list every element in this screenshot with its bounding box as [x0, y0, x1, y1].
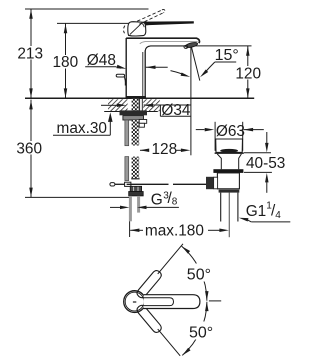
- svg-text:8: 8: [172, 197, 178, 208]
- svg-text:G1: G1: [246, 203, 267, 220]
- dimension 120: [235, 46, 261, 98]
- dimension 128: [140, 141, 191, 158]
- svg-text:180: 180: [52, 54, 78, 71]
- svg-text:40-53: 40-53: [246, 155, 285, 172]
- threaded shank (lower): [132, 157, 140, 179]
- drain seal ring: [213, 169, 243, 173]
- top view: handle: [144, 295, 200, 309]
- dimension 40-53: [244, 132, 286, 193]
- extension line supply level: [25, 196, 130, 198]
- svg-text:50°: 50°: [187, 266, 211, 283]
- svg-text:4: 4: [275, 210, 281, 221]
- threaded shank below nut (upper): [132, 120, 140, 146]
- horizontal reference line right of handle: [209, 300, 221, 302]
- svg-text:120: 120: [235, 66, 261, 83]
- shank tube wall: [140, 99, 143, 111]
- dashed raised lever: [137, 9, 165, 24]
- 15 degree left arc arrow: [171, 71, 191, 79]
- extension line top (raised lever height): [25, 8, 149, 10]
- svg-text:Ø34: Ø34: [161, 102, 191, 119]
- svg-text:213: 213: [17, 45, 43, 62]
- label G3/8 with leader: [110, 190, 179, 209]
- mounting washer: [120, 110, 148, 115]
- lever handle bar: [143, 21, 194, 26]
- upper 50 arc: [181, 245, 214, 301]
- label 15 degrees with leader: [199, 47, 239, 78]
- tailpipe centerline: [228, 193, 230, 238]
- mounting nut: [123, 116, 144, 120]
- extension line handle height: [57, 22, 141, 24]
- lower 50 arc: [181, 302, 216, 357]
- pull rod ball end: [110, 183, 115, 186]
- drain: Ø63 dimension: [196, 122, 264, 151]
- svg-text:50°: 50°: [189, 325, 213, 342]
- supply hose tails: [129, 196, 132, 221]
- label G1 1/4 with leader: [238, 201, 290, 222]
- 15 degree construction: vertical reference line: [190, 46, 192, 155]
- threaded shank in hole: [132, 99, 140, 111]
- top view: handle inner detail: [142, 298, 174, 306]
- top view: lever rotated up 50: [135, 241, 186, 299]
- faucet spout arm: [126, 38, 199, 51]
- washer under housing: [219, 190, 240, 193]
- counter section hatch right block: [143, 99, 160, 104]
- extension line spout tip height: [195, 45, 252, 47]
- pull rod knob behind body: [116, 74, 125, 85]
- drain neck: [217, 154, 241, 169]
- pivot nut left: [214, 177, 218, 189]
- pull rod below counter (lower): [125, 157, 129, 181]
- label Ø48 with leader: [85, 52, 168, 71]
- rod clamp block: [125, 182, 131, 186]
- top view: pivot circle: [124, 291, 146, 313]
- dimension 360: [16, 100, 44, 198]
- drain pivot housing: [217, 173, 239, 189]
- 15 degree stream line: [191, 46, 200, 81]
- dimension 180: [52, 23, 78, 98]
- svg-text:G: G: [151, 191, 163, 208]
- counter bottom line left: [104, 111, 127, 113]
- G3/8 fitting nut: [130, 186, 141, 191]
- cartridge dome: [128, 22, 146, 36]
- top view: lever rotated down 50: [135, 304, 183, 359]
- hose outlet nipple: [139, 120, 147, 128]
- counter section hatch left block: [108, 99, 128, 111]
- counter top line: [25, 97, 254, 99]
- svg-text:max.180: max.180: [145, 223, 204, 240]
- label Ø34 with leader box: [144, 102, 191, 119]
- faucet body column: [126, 38, 146, 98]
- svg-text:128: 128: [152, 141, 178, 158]
- drain tailpipe: [221, 193, 238, 222]
- svg-text:360: 360: [16, 140, 42, 157]
- aerator at spout tip: [184, 42, 198, 49]
- counter bottom line right: [143, 111, 158, 113]
- horizontal pull rod to drain: [127, 183, 169, 185]
- drain flange cup: [215, 139, 244, 153]
- dimension 213: [17, 9, 45, 98]
- svg-text:max.30: max.30: [57, 120, 107, 137]
- dashed swing arc at dome back: [123, 26, 124, 34]
- svg-text:Ø63: Ø63: [216, 123, 245, 140]
- dimension max.180: [130, 221, 229, 239]
- pull rod below counter (upper): [125, 120, 129, 146]
- label max.30 with leaders: [53, 104, 126, 138]
